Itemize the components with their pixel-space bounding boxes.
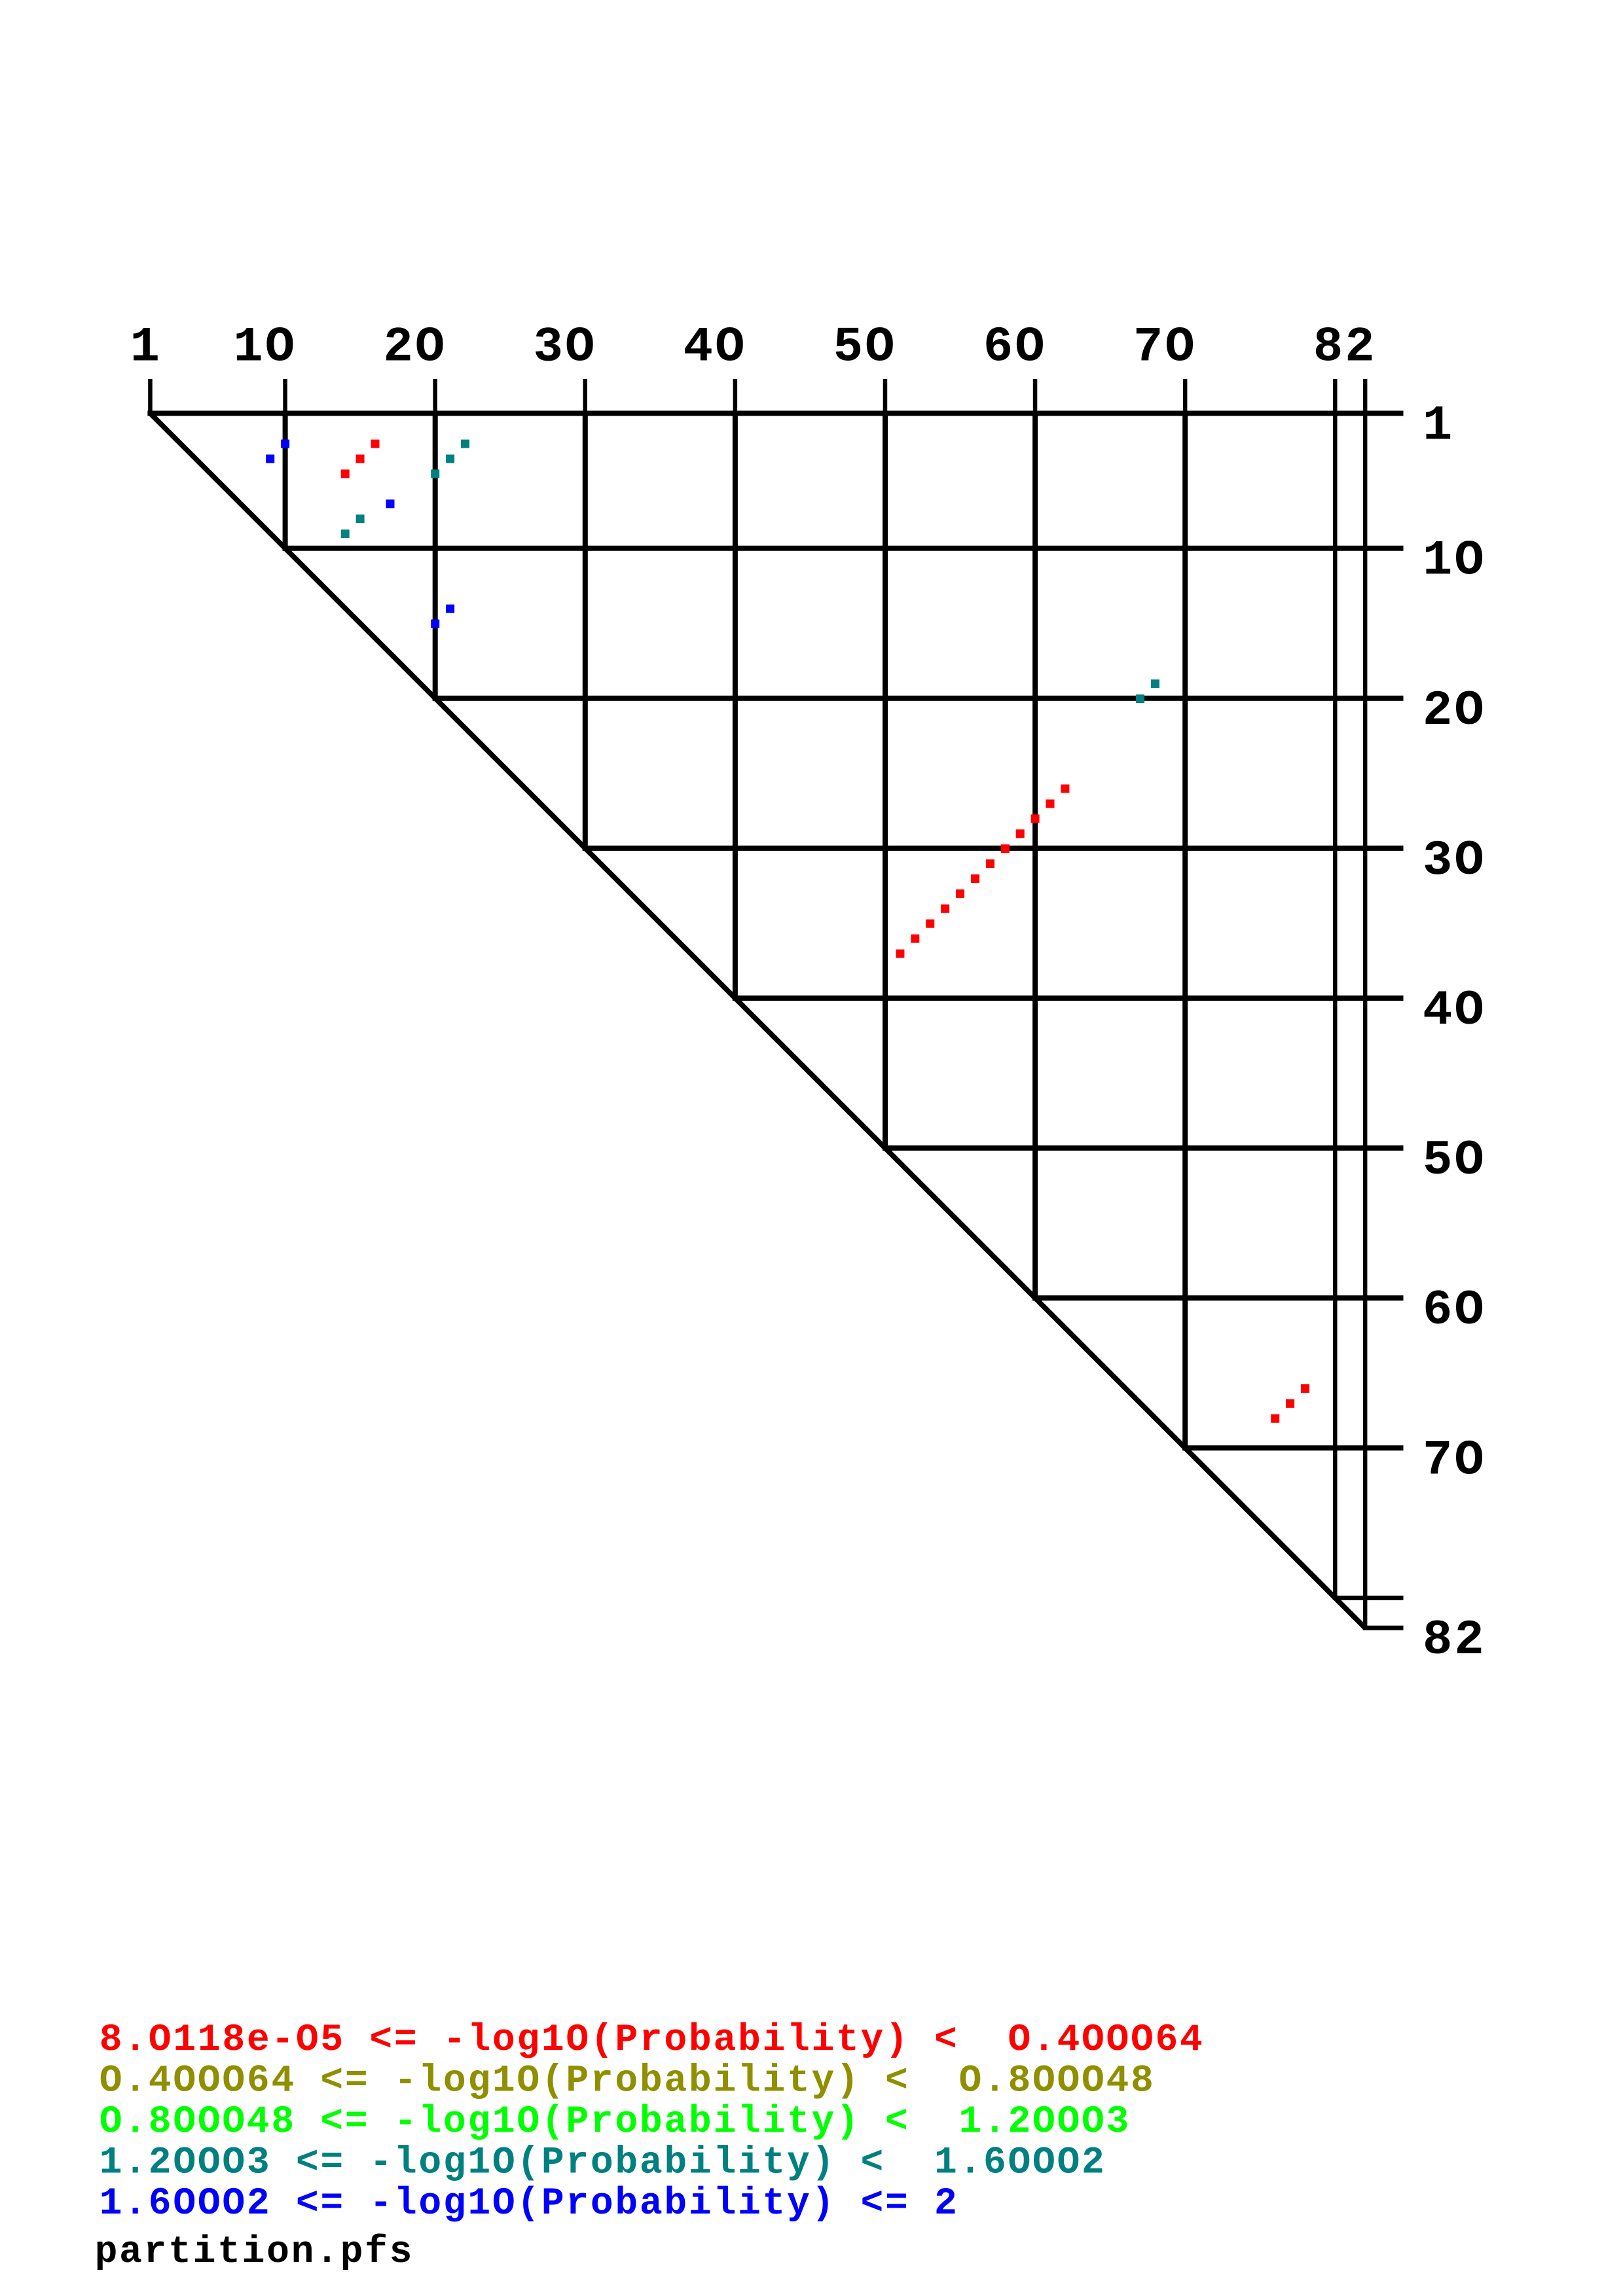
dot blue col 21 row 14 [446, 605, 454, 613]
boundary horizontal 80 [1333, 1596, 1404, 1600]
top tick 1 [148, 379, 153, 416]
grid horizontal 10 [283, 546, 1404, 551]
grid vertical 20 [433, 411, 438, 701]
dot red col 56 row 32 [971, 874, 979, 883]
svg-text:O.8OOO48 <= -log1O(Probability: O.8OOO48 <= -log1O(Probability) < 1.2OOO… [100, 2101, 1131, 2144]
svg-text:7O: 7O [1133, 319, 1197, 376]
dot blue col 10 row 3 [281, 440, 289, 448]
diagonal [150, 414, 1365, 1628]
grid horizontal 70 [1182, 1445, 1403, 1450]
svg-text:partition.pfs: partition.pfs [95, 2231, 414, 2274]
dot teal col 21 row 4 [446, 455, 454, 463]
grid vertical 50 [883, 411, 888, 1151]
grid horizontal 40 [733, 996, 1404, 1001]
svg-text:82: 82 [1423, 1612, 1486, 1668]
svg-text:6O: 6O [1423, 1282, 1486, 1338]
grid horizontal 60 [1032, 1295, 1403, 1300]
dot teal col 67 row 20 [1136, 694, 1144, 703]
top tick 10 [283, 379, 287, 416]
boundary vertical 80 [1333, 379, 1338, 1600]
svg-text:5O: 5O [833, 319, 897, 376]
dot red col 54 row 34 [941, 905, 949, 913]
svg-text:1.6OOO2 <= -log1O(Probability): 1.6OOO2 <= -log1O(Probability) <= 2 [100, 2183, 959, 2225]
grid vertical 40 [733, 411, 738, 1001]
grid vertical 60 [1032, 411, 1038, 1301]
dot red col 76 row 68 [1271, 1414, 1279, 1423]
svg-text:8.O118e-O5 <= -log1O(Probabili: 8.O118e-O5 <= -log1O(Probability) < O.4O… [100, 2019, 1205, 2062]
top tick 20 [433, 379, 437, 416]
grid vertical 10 [283, 411, 288, 551]
top tick 70 [1183, 379, 1188, 416]
svg-text:1O: 1O [233, 319, 297, 376]
svg-text:82: 82 [1313, 319, 1377, 376]
dot red col 15 row 4 [356, 455, 365, 463]
dot red col 60 row 28 [1031, 814, 1040, 823]
svg-text:4O: 4O [684, 319, 747, 376]
svg-text:3O: 3O [534, 319, 597, 376]
dot red col 51 row 37 [896, 950, 904, 958]
svg-text:1.2OOO3 <= -log1O(Probability): 1.2OOO3 <= -log1O(Probability) < 1.6OOO2 [100, 2142, 1106, 2185]
dot teal col 15 row 8 [356, 514, 365, 523]
top tick 40 [733, 379, 738, 416]
dot red col 58 row 30 [1001, 844, 1010, 853]
dot red col 59 row 29 [1016, 829, 1025, 838]
top tick 30 [583, 379, 588, 416]
boundary vertical 82 [1363, 379, 1368, 1630]
grid horizontal 20 [433, 696, 1404, 701]
dot teal col 20 row 5 [431, 469, 439, 478]
dot red col 57 row 31 [986, 859, 994, 868]
svg-text:1: 1 [130, 319, 162, 376]
svg-text:4O: 4O [1423, 982, 1486, 1039]
svg-text:2O: 2O [1423, 683, 1486, 739]
dot red col 78 row 66 [1301, 1384, 1309, 1393]
dot teal col 14 row 9 [341, 529, 350, 538]
dot red col 62 row 26 [1061, 785, 1069, 793]
dot red col 77 row 67 [1286, 1399, 1294, 1408]
svg-text:7O: 7O [1423, 1432, 1486, 1488]
svg-text:5O: 5O [1423, 1132, 1486, 1189]
grid horizontal 30 [583, 846, 1404, 851]
grid horizontal 50 [883, 1145, 1404, 1151]
svg-text:O.4OOO64 <= -log1O(Probability: O.4OOO64 <= -log1O(Probability) < O.8OOO… [100, 2060, 1156, 2103]
boundary horizontal 82 [1363, 1626, 1404, 1630]
svg-text:3O: 3O [1423, 833, 1486, 889]
svg-text:2O: 2O [383, 319, 447, 376]
svg-text:1O: 1O [1423, 533, 1486, 589]
dot red col 16 row 3 [371, 440, 380, 448]
dot blue col 9 row 4 [266, 455, 274, 463]
svg-text:1: 1 [1423, 398, 1454, 454]
dot red col 61 row 27 [1046, 800, 1055, 808]
dot blue col 20 row 15 [431, 620, 439, 628]
dot red col 52 row 36 [911, 935, 919, 943]
top tick 50 [883, 379, 888, 416]
grid vertical 30 [583, 411, 588, 851]
dot red col 53 row 35 [926, 920, 934, 928]
grid vertical 70 [1182, 411, 1188, 1451]
dot red col 55 row 33 [956, 889, 964, 898]
dot teal col 22 row 3 [461, 440, 469, 448]
top tick 60 [1033, 379, 1038, 416]
dot teal col 68 row 19 [1151, 679, 1159, 688]
grid horizontal 1 [147, 411, 1403, 416]
dot blue col 17 row 7 [386, 499, 395, 508]
dot red col 14 row 5 [341, 469, 350, 478]
svg-text:6O: 6O [983, 319, 1047, 376]
